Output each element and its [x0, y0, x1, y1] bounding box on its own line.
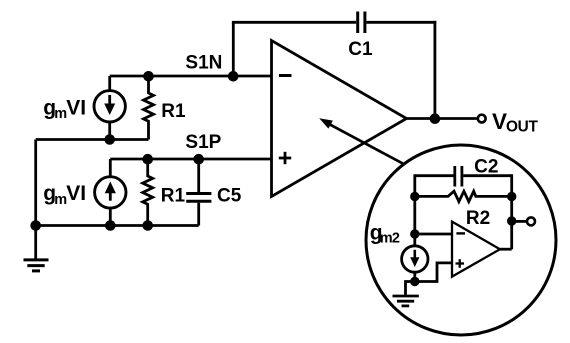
node CS2 bottom junction dot: [105, 220, 116, 231]
op-amp U1 minus sign: [279, 74, 292, 77]
op-amp U1 plus sign: [279, 152, 291, 164]
svg-text:C5: C5: [217, 186, 242, 207]
wire current source 2 bottom stub: [109, 208, 112, 226]
op-amp U2 plus sign: [456, 259, 465, 268]
node output junction dot: [430, 113, 441, 124]
wire feedback left vertical from S1N: [232, 22, 235, 76]
terminal VOUT open circle: [478, 115, 486, 123]
svg-text:C2: C2: [474, 157, 498, 178]
capacitor C5: [186, 159, 211, 226]
wire feedback top horizontal (right of C1): [366, 21, 436, 24]
wire S1P rail (block2 top): [110, 158, 271, 161]
resistor R1 bottom: [143, 159, 153, 226]
current source gm2 (arrow down): [402, 246, 428, 272]
capacitor C1: [358, 12, 365, 34]
wire block2 bottom rail: [36, 224, 199, 227]
ground inset: [393, 282, 419, 306]
svg-text:OUT: OUT: [506, 118, 538, 135]
capacitor C2: [455, 166, 462, 187]
wire U2 minus input: [415, 233, 452, 236]
wire U2 apex stub: [500, 248, 512, 251]
terminal inset output open circle: [527, 217, 535, 225]
node inset R2-left junction dot: [410, 192, 419, 201]
node inset R2-right junction dot: [507, 192, 516, 201]
wire inset top (C2 branch left): [415, 174, 454, 177]
svg-text:R2: R2: [466, 208, 490, 229]
node inset output junction dot: [507, 216, 516, 225]
svg-text:VI: VI: [66, 182, 86, 205]
arrow from inset to op-amp: [319, 118, 404, 164]
svg-text:C1: C1: [348, 39, 373, 60]
wire inset output stub: [512, 220, 527, 223]
wire gm2 top stub: [413, 235, 416, 247]
node R1 top junction dot: [143, 71, 154, 82]
current source gmVI top (arrow down): [94, 91, 125, 122]
wire top rail S1N (left block top): [110, 75, 272, 78]
inset circle (detail bubble): [366, 145, 556, 335]
resistor R2: [415, 191, 512, 201]
svg-text:V: V: [492, 109, 507, 134]
svg-text:S1N: S1N: [185, 53, 222, 74]
node S1N junction dot: [228, 71, 239, 82]
wire left vertical to ground: [34, 140, 37, 226]
wire U2 plus input path: [415, 263, 452, 282]
wire inset left vertical: [413, 174, 416, 234]
op-amp U1: [272, 41, 407, 197]
svg-text:m2: m2: [380, 231, 400, 247]
wire gm2 bottom stub: [413, 272, 416, 282]
wire current source 1 bottom stub: [108, 122, 111, 140]
resistor R1 top: [144, 76, 154, 140]
wire feedback right vertical down to output: [433, 21, 436, 119]
svg-text:m: m: [54, 106, 67, 122]
wire current source 2 top stub: [109, 159, 112, 177]
wire current source 1 top stub: [108, 76, 111, 91]
op-amp U2 (inset): [452, 222, 500, 277]
wire block1 bottom rail: [36, 138, 149, 141]
node CS1 bottom junction dot: [104, 134, 115, 145]
node S1P R1 junction dot: [142, 154, 153, 165]
wire feedback top horizontal (left of C1): [232, 21, 356, 24]
node inset gm2 bottom junction dot: [410, 277, 419, 286]
wire inset right vertical: [510, 174, 513, 249]
svg-text:VI: VI: [66, 96, 86, 119]
node inset minus junction dot: [410, 229, 419, 238]
svg-text:R1: R1: [161, 101, 186, 122]
ground main: [24, 226, 49, 271]
node S1P C5 junction dot: [193, 154, 204, 165]
current source gmVI bottom (arrow up): [95, 177, 126, 208]
svg-text:S1P: S1P: [185, 132, 221, 153]
node ground-left junction dot: [30, 220, 41, 231]
svg-text:m: m: [54, 192, 67, 208]
svg-text:R1: R1: [161, 186, 186, 207]
node R1-bottom rail junction dot: [142, 220, 153, 231]
op-amp U2 minus sign: [456, 232, 465, 234]
wire output: [407, 117, 477, 120]
wire inset top (C2 branch right): [463, 174, 512, 177]
